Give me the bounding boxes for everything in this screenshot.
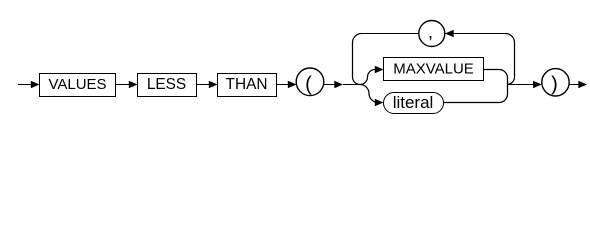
arrowhead into close paren — [533, 81, 542, 88]
wire: THAN to open paren — [277, 84, 289, 86]
wire: branch up to MAXVALUE — [360, 70, 376, 85]
arrowhead into MAXVALUE — [375, 66, 384, 73]
terminal circle comma — [419, 21, 445, 47]
svg-text:(: ( — [305, 73, 312, 95]
wire: entry line — [18, 84, 31, 86]
wire: literal exit to merge — [444, 85, 508, 103]
svg-text:VALUES: VALUES — [48, 76, 106, 93]
arrowhead into LESS — [129, 81, 138, 88]
arrowhead into branch — [334, 81, 343, 88]
wire: loop up-arc from main line — [507, 77, 515, 85]
wire: merge to close paren — [508, 84, 535, 86]
wire: loop top horizontal — [362, 33, 506, 35]
wire: VALUES to LESS — [116, 84, 130, 86]
svg-text:): ) — [551, 74, 558, 96]
arrowhead into comma (left pointing) — [445, 30, 454, 37]
arrowhead into VALUES — [31, 81, 40, 88]
wire: branch entry segment — [343, 84, 360, 86]
arrowhead into THAN — [209, 81, 218, 88]
wire: loop left vertical with corners — [353, 34, 362, 85]
terminal circle ( — [296, 68, 324, 96]
wire: open paren to branch — [324, 84, 335, 86]
box keyword MAXVALUE — [384, 58, 484, 81]
terminal circle ) — [542, 69, 569, 96]
svg-text:,: , — [428, 22, 433, 42]
arrowhead into literal — [375, 99, 384, 106]
box keyword LESS — [138, 74, 197, 97]
wire: loop right vertical with corner — [506, 34, 515, 78]
wire: LESS to THAN — [197, 84, 210, 86]
wire: branch down to literal — [360, 85, 378, 103]
wire: MAXVALUE exit to merge — [484, 70, 508, 85]
arrowhead exit — [578, 81, 587, 88]
arrowhead into open paren — [288, 81, 297, 88]
svg-text:LESS: LESS — [147, 76, 186, 93]
box keyword VALUES — [40, 74, 116, 97]
svg-text:MAXVALUE: MAXVALUE — [393, 61, 474, 78]
svg-text:literal: literal — [393, 93, 434, 112]
svg-text:THAN: THAN — [226, 76, 268, 93]
box keyword THAN — [218, 74, 277, 97]
stadium literal — [384, 93, 444, 114]
wire: exit line — [569, 84, 578, 86]
